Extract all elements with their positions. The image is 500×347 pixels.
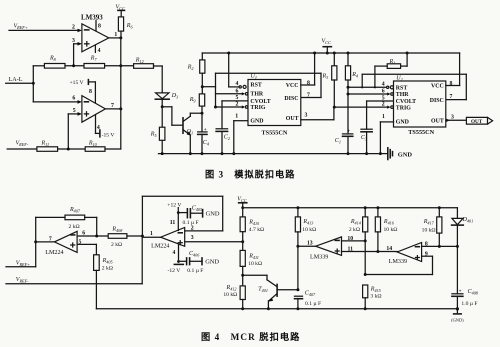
resistor R5	[150, 127, 165, 140]
resistor R2	[187, 53, 205, 94]
wire THR U2	[348, 89, 393, 96]
svg-text:8: 8	[307, 80, 310, 86]
svg-text:VCC: VCC	[286, 83, 299, 89]
resistor R12	[134, 58, 163, 93]
wire DISC U2 loop	[362, 74, 466, 99]
resistor R410	[240, 217, 264, 251]
wire pin1 LM224 B	[142, 231, 160, 237]
capacitor C406	[179, 251, 220, 274]
svg-text:5: 5	[382, 95, 385, 101]
svg-text:DISC: DISC	[284, 96, 298, 102]
svg-text:VCC: VCC	[322, 38, 331, 45]
capacitor C3	[361, 101, 372, 155]
node VREF- terminal fig4	[6, 236, 142, 284]
svg-text:2 kΩ: 2 kΩ	[102, 265, 113, 271]
svg-text:R410: R410	[248, 219, 260, 226]
wire D3 node to Q1 base	[162, 107, 182, 125]
svg-text:CVOLT: CVOLT	[396, 99, 416, 105]
svg-text:-15 V: -15 V	[102, 133, 115, 139]
svg-text:RST: RST	[250, 83, 262, 89]
svg-text:7: 7	[111, 103, 114, 109]
svg-text:6: 6	[382, 89, 385, 95]
svg-text:R7: R7	[90, 56, 98, 63]
wire pin2 feedback loop	[142, 196, 222, 236]
diode D401	[452, 208, 474, 247]
resistor R6	[118, 17, 133, 38]
svg-text:1: 1	[150, 231, 153, 237]
svg-text:14: 14	[386, 246, 392, 252]
caption figure 4	[201, 331, 300, 342]
svg-text:C406: C406	[189, 251, 200, 258]
wire pin5 to R405	[77, 240, 96, 255]
svg-text:6: 6	[72, 96, 75, 102]
IC U1 TS555CN	[248, 74, 301, 137]
svg-text:TS555CN: TS555CN	[262, 130, 288, 137]
svg-text:1.0 µ F: 1.0 µ F	[461, 301, 477, 307]
svg-text:VREF-: VREF-	[16, 277, 29, 284]
resistor R412	[223, 285, 245, 310]
svg-text:10 kΩ: 10 kΩ	[302, 227, 316, 233]
svg-text:RST: RST	[396, 85, 408, 91]
capacitor C407	[295, 291, 322, 311]
svg-text:3: 3	[304, 112, 307, 118]
svg-text:THR: THR	[396, 92, 410, 98]
svg-text:R6: R6	[126, 23, 134, 30]
wire THR U1	[216, 88, 248, 95]
svg-text:8: 8	[98, 23, 101, 29]
wire CVOLT U1	[222, 95, 248, 101]
svg-text:R411: R411	[248, 254, 259, 261]
op-amp U-A LM393	[81, 14, 109, 54]
svg-text:8: 8	[89, 89, 92, 95]
svg-text:2: 2	[72, 25, 75, 31]
svg-text:7: 7	[450, 94, 453, 100]
wire pin5 input	[68, 108, 82, 149]
resistor R407 feedback	[36, 207, 97, 242]
wire pin3 input	[72, 38, 82, 66]
svg-text:VREF+: VREF+	[14, 24, 28, 31]
svg-text:1: 1	[114, 32, 117, 38]
caption figure 3	[205, 168, 295, 179]
wire pin7 output	[105, 103, 120, 109]
svg-text:LM393: LM393	[81, 14, 103, 22]
capacitor C408	[452, 246, 479, 310]
resistor R8	[33, 56, 65, 69]
svg-text:C4: C4	[203, 140, 209, 147]
wire pin10 input	[342, 236, 367, 243]
svg-text:T401: T401	[258, 287, 268, 294]
wire output pin1	[109, 32, 123, 39]
svg-text:TS555CN: TS555CN	[408, 129, 434, 136]
svg-text:R5: R5	[150, 132, 157, 139]
op-amp LM339 B	[389, 243, 422, 266]
svg-text:2: 2	[191, 226, 194, 232]
svg-text:11: 11	[348, 246, 354, 252]
svg-text:6: 6	[236, 88, 239, 94]
power VCC fig4	[237, 196, 247, 217]
svg-text:13: 13	[307, 241, 313, 247]
power +15V	[70, 80, 96, 104]
wire ground bus fig4	[96, 308, 457, 310]
svg-text:4.7 kΩ: 4.7 kΩ	[249, 227, 264, 233]
node VREF- terminal top circuit	[7, 141, 37, 149]
wire pin8 input	[422, 241, 459, 248]
svg-text:C1: C1	[335, 138, 341, 145]
svg-text:7: 7	[307, 92, 310, 98]
resistor R408	[108, 227, 144, 249]
svg-text:9: 9	[425, 251, 428, 257]
svg-text:R4: R4	[351, 72, 358, 79]
svg-text:2 kΩ: 2 kΩ	[69, 224, 80, 230]
wire pin13 output	[298, 241, 316, 247]
svg-text:C405: C405	[192, 205, 202, 212]
resistor R7	[84, 56, 134, 69]
wire VCC pin8 U1	[301, 53, 315, 86]
capacitor C405	[178, 205, 220, 225]
svg-text:GND: GND	[206, 211, 220, 218]
op-amp LM224 B	[151, 228, 185, 250]
svg-text:VCC: VCC	[237, 196, 246, 203]
wire pin6 op-amp2	[33, 96, 82, 104]
power -15V pin4	[96, 115, 115, 139]
svg-text:R405: R405	[102, 258, 113, 265]
svg-text:11: 11	[170, 220, 176, 226]
svg-text:2: 2	[382, 102, 385, 108]
resistor R413	[295, 208, 316, 292]
power +12V pin11	[167, 203, 181, 231]
svg-text:R417: R417	[423, 219, 435, 226]
resistor R416	[375, 208, 397, 252]
svg-text:D3: D3	[171, 93, 178, 100]
svg-text:C2: C2	[224, 135, 230, 142]
svg-text:(GND): (GND)	[451, 317, 464, 322]
wire pin6 node and R408 row	[77, 230, 108, 237]
svg-text:-12 V: -12 V	[168, 268, 181, 274]
svg-text:10 kΩ: 10 kΩ	[248, 261, 262, 267]
svg-text:8: 8	[425, 241, 428, 247]
svg-text:C3: C3	[361, 135, 367, 142]
svg-text:1: 1	[382, 114, 385, 120]
node LA-L terminal	[6, 66, 35, 102]
svg-text:2 kΩ: 2 kΩ	[111, 242, 122, 248]
node OUT flag	[466, 117, 492, 125]
wire VCC rail fig4	[243, 206, 458, 209]
svg-text:0.1 µ F: 0.1 µ F	[305, 301, 321, 307]
svg-text:C408: C408	[468, 289, 479, 296]
wire OUT pin3 U1	[301, 92, 334, 119]
svg-text:R407: R407	[69, 207, 81, 214]
ground symbol fig4	[451, 309, 464, 322]
svg-text:TRIG: TRIG	[396, 106, 411, 112]
svg-text:R2: R2	[187, 64, 194, 71]
svg-text:+15 V: +15 V	[70, 80, 84, 86]
svg-text:THR: THR	[250, 91, 264, 97]
svg-text:3 kΩ: 3 kΩ	[370, 293, 381, 299]
resistor R417	[422, 208, 442, 247]
svg-text:7: 7	[49, 236, 52, 242]
svg-text:图 4 MCR 脱扣电路: 图 4 MCR 脱扣电路	[201, 331, 300, 342]
svg-text:OUT: OUT	[286, 116, 299, 122]
resistor R9	[189, 94, 205, 115]
transistor Q1	[183, 113, 202, 155]
resistor R415	[363, 285, 382, 310]
svg-text:Q1: Q1	[187, 129, 193, 136]
svg-text:D401: D401	[462, 217, 474, 224]
wire U1 left column	[214, 73, 217, 108]
power VCC mid	[322, 38, 332, 53]
wire pin9 input loop	[365, 251, 432, 274]
svg-text:5: 5	[73, 108, 76, 114]
svg-text:10 kΩ: 10 kΩ	[384, 227, 398, 233]
node VREF+ terminal fig4	[6, 242, 36, 267]
resistor R411	[240, 250, 262, 286]
svg-text:LM339: LM339	[389, 259, 407, 265]
wire node A to 555 column	[202, 86, 215, 88]
wire pin7 output	[34, 236, 54, 243]
svg-text:LM224: LM224	[151, 244, 169, 250]
resistor R11	[37, 141, 85, 152]
ground symbol fig3	[380, 148, 412, 160]
svg-text:TRIG: TRIG	[250, 105, 265, 111]
op-amp U-B LM393 lower	[82, 96, 106, 123]
transistor T401	[243, 275, 298, 310]
capacitor C1	[335, 130, 353, 156]
svg-text:GND: GND	[398, 152, 413, 159]
svg-text:8: 8	[450, 81, 453, 87]
svg-text:0.1 µ F: 0.1 µ F	[183, 220, 199, 226]
svg-text:R9: R9	[189, 97, 197, 104]
svg-text:4: 4	[98, 48, 101, 54]
wire OUT pin3 U2 to flag	[446, 114, 467, 122]
svg-text:5: 5	[236, 95, 239, 101]
svg-text:5: 5	[78, 240, 81, 246]
capacitor C4	[198, 113, 209, 155]
svg-text:VCC: VCC	[431, 84, 444, 90]
wire pin3 input	[185, 235, 245, 243]
power VCC top-left	[116, 5, 125, 17]
svg-text:VREF-: VREF-	[16, 141, 29, 148]
wire ground bus top circuit	[159, 152, 381, 155]
svg-text:1: 1	[235, 114, 238, 120]
svg-text:LM339: LM339	[310, 255, 328, 261]
svg-text:R414: R414	[350, 219, 361, 226]
svg-text:GND: GND	[205, 259, 219, 266]
svg-text:LM224: LM224	[45, 250, 63, 256]
node VREF+ terminal	[14, 24, 28, 31]
svg-text:LA-L: LA-L	[9, 76, 23, 83]
svg-text:10: 10	[347, 236, 353, 242]
resistor R1	[375, 53, 407, 87]
resistor R405	[94, 255, 113, 309]
svg-text:C407: C407	[305, 291, 316, 298]
wire VCC rail top	[202, 52, 459, 55]
svg-text:R8: R8	[49, 56, 57, 63]
wire TRIG U2	[334, 102, 393, 109]
wire RST U1 from rail	[229, 53, 246, 88]
op-amp LM339 A	[310, 237, 341, 261]
svg-text:6: 6	[82, 230, 85, 236]
svg-text:R412: R412	[226, 285, 237, 292]
svg-text:+12 V: +12 V	[167, 203, 181, 209]
svg-text:OUT: OUT	[471, 119, 483, 125]
svg-text:2: 2	[236, 102, 239, 108]
wire GND U1	[232, 114, 248, 155]
svg-text:R408: R408	[111, 227, 123, 234]
svg-text:OUT: OUT	[431, 118, 444, 124]
svg-text:2 kΩ: 2 kΩ	[349, 227, 360, 233]
svg-text:GND: GND	[396, 120, 409, 126]
diode D3	[155, 93, 178, 154]
svg-text:DISC: DISC	[430, 98, 444, 104]
svg-text:10 kΩ: 10 kΩ	[422, 228, 436, 234]
wire DISC U1 loop	[216, 73, 322, 97]
svg-text:3: 3	[451, 114, 454, 120]
svg-text:R416: R416	[383, 219, 395, 226]
resistor R4	[345, 53, 358, 134]
wire RST U2	[348, 81, 393, 88]
svg-text:VREF+: VREF+	[16, 261, 30, 268]
svg-text:10 kΩ: 10 kΩ	[223, 292, 237, 298]
wire TRIG U1	[216, 102, 248, 109]
wire GND U2	[379, 114, 394, 155]
svg-text:R413: R413	[302, 219, 313, 226]
resistor R414	[349, 208, 368, 276]
wire VCC pin8 U2	[446, 53, 460, 100]
svg-text:4: 4	[236, 81, 239, 87]
capacitor C2	[216, 101, 230, 155]
svg-text:R415: R415	[370, 286, 381, 293]
svg-text:4: 4	[382, 81, 385, 87]
svg-text:3: 3	[191, 235, 194, 241]
resistor R3	[322, 53, 337, 109]
wire VREF+ to pin2	[9, 25, 82, 33]
wire pin11 pin14 row	[342, 246, 398, 253]
svg-text:R3: R3	[322, 73, 329, 80]
svg-text:GND: GND	[250, 118, 263, 124]
wire CVOLT U2	[367, 95, 394, 101]
power -12V pin4	[168, 244, 184, 274]
wire R8-R7 with node	[65, 64, 84, 67]
op-amp LM224 A	[45, 231, 77, 256]
svg-text:4: 4	[173, 250, 176, 256]
svg-text:CVOLT: CVOLT	[250, 99, 270, 105]
resistor R10	[85, 141, 121, 152]
svg-text:图 3 模拟脱扣电路: 图 3 模拟脱扣电路	[205, 168, 295, 179]
svg-text:0.1 µ F: 0.1 µ F	[187, 268, 203, 274]
wire output bus vertical	[119, 38, 122, 149]
IC U2 TS555CN	[394, 75, 446, 136]
